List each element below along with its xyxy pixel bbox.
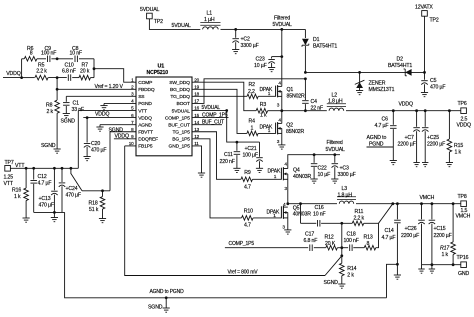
capacitor C23: [268, 57, 275, 68]
svg-text:C14: C14: [385, 228, 394, 234]
wire network right vertical: [93, 59, 95, 78]
svg-text:2.2 k: 2.2 k: [36, 69, 47, 75]
junction C15 tap: [431, 202, 434, 205]
capacitor C11: [234, 142, 241, 168]
svg-text:DPAK: DPAK: [260, 87, 273, 93]
svg-text:R16: R16: [12, 188, 21, 194]
junction node A top: [340, 222, 343, 225]
value MMSZ13T1: [369, 87, 395, 93]
svg-text:100 nF: 100 nF: [41, 50, 56, 56]
label 1.25 (TP7): [4, 175, 14, 181]
resistor R6: [24, 57, 37, 62]
wire R2 to Q1 gate: [258, 95, 275, 97]
label GND (TP16): [458, 271, 469, 277]
label TP2 right: [430, 18, 439, 24]
capacitor C15: [429, 204, 436, 265]
svg-text:AGND to: AGND to: [367, 135, 387, 141]
ground SGND bottom: [163, 298, 170, 312]
svg-text:100 nF: 100 nF: [344, 238, 359, 244]
inductor L1: [200, 23, 220, 30]
net label 12VATX: [415, 5, 433, 11]
capacitor C20: [84, 118, 91, 157]
svg-text:5VDUAL: 5VDUAL: [273, 22, 293, 28]
ground below Q2: [278, 145, 285, 149]
wire C16 row left: [301, 222, 317, 224]
wire SW node to L2: [282, 110, 327, 112]
wire BOOT rail: [305, 71, 424, 73]
value 2200 uF (C15): [434, 233, 452, 239]
pin 3 (Q2): [277, 139, 280, 145]
label L2: [332, 92, 338, 98]
svg-text:TG_1P5: TG_1P5: [172, 130, 190, 136]
wire diagonal to Vref800: [325, 256, 342, 276]
value 1 k (R16): [14, 194, 21, 200]
pin 4 (Q5): [283, 202, 286, 208]
label SGND below R8: [41, 143, 56, 149]
U1 pin number 17: [194, 99, 199, 104]
svg-text:2 k: 2 k: [47, 109, 54, 115]
svg-text:+C26: +C26: [405, 226, 417, 232]
ground below R14: [338, 284, 345, 288]
wire Q2 source to gnd: [281, 133, 283, 145]
wire VDDQ input: [3, 77, 22, 79]
junction node A mid: [340, 254, 343, 257]
value 10 nF (C16): [313, 212, 326, 218]
ground SGND below C1: [63, 114, 70, 118]
U1 reference label: [158, 64, 165, 70]
label +C25: [427, 135, 439, 141]
pin 1 (Q4): [274, 174, 277, 180]
label C14: [385, 228, 394, 234]
svg-text:Filtered: Filtered: [274, 16, 290, 22]
U1 pin name FBDDQ (pin 2): [138, 87, 155, 93]
junction C6 tap: [392, 109, 395, 112]
ground below C7: [413, 163, 419, 167]
svg-text:1.25: 1.25: [4, 175, 14, 181]
svg-text:14: 14: [194, 120, 199, 125]
label C23: [256, 57, 265, 63]
svg-text:4.7: 4.7: [244, 184, 251, 190]
value 22 nF (C4): [311, 105, 324, 111]
wire row A left: [22, 58, 25, 60]
label 1.5 (TP8): [461, 208, 468, 214]
wire diagonal to VMCH: [379, 204, 393, 224]
label Q4: [293, 168, 300, 174]
svg-text:BOOT: BOOT: [177, 101, 190, 107]
label R6: [27, 46, 34, 52]
label ZENER: [369, 81, 386, 87]
svg-text:2.2 k: 2.2 k: [354, 216, 365, 222]
svg-text:R2: R2: [249, 82, 256, 88]
wire VMCH rail: [356, 203, 461, 205]
svg-text:+C25: +C25: [427, 135, 439, 141]
svg-text:4.7: 4.7: [244, 222, 251, 228]
wire C17 to R12: [314, 247, 326, 249]
svg-text:DPAK: DPAK: [260, 124, 273, 130]
label +C13: [39, 196, 51, 202]
U1 pin number 14: [194, 120, 199, 125]
label Q5: [293, 206, 300, 212]
capacitor C25: [422, 111, 429, 163]
junction SGND bottom: [165, 296, 168, 299]
resistor R17: [451, 204, 456, 265]
label R7: [82, 63, 89, 69]
svg-text:R13: R13: [364, 235, 373, 241]
U1 pin number 3: [131, 92, 134, 97]
svg-text:5VDUAL: 5VDUAL: [140, 7, 160, 13]
svg-text:2200 µF: 2200 µF: [427, 142, 445, 148]
junction diag stub: [70, 167, 73, 170]
diode D1 BAT54HT1: [302, 39, 309, 47]
label C16: [315, 205, 324, 211]
svg-text:100 µF: 100 µF: [243, 153, 258, 159]
value 3300 uF (C2): [241, 43, 259, 49]
U1 pin name BG_1P5 (pin 12): [172, 137, 190, 143]
svg-text:+C21: +C21: [245, 146, 257, 152]
testpoint TP2 5VDUAL: [147, 13, 153, 19]
net label 5VDUAL above TP2: [140, 7, 160, 13]
label SGND bottom: [148, 305, 163, 311]
junction C14 tap: [396, 202, 399, 205]
wire BOOT pin17 riser: [192, 79, 305, 104]
svg-text:TG_DDQ: TG_DDQ: [170, 94, 190, 100]
net label Filtered 5VDUAL (1P5): [326, 140, 346, 153]
svg-text:5VDUAL: 5VDUAL: [326, 147, 346, 153]
label Q1: [287, 87, 294, 93]
value 4.7 uF (C6): [375, 123, 389, 129]
wire R9 to Q4 gate: [253, 178, 282, 180]
label R2: [249, 82, 256, 88]
capacitor C14: [394, 204, 401, 265]
svg-text:TP2: TP2: [154, 19, 163, 25]
U1 value label NCP5210: [147, 70, 169, 76]
label C18: [347, 232, 356, 238]
svg-text:10: 10: [129, 141, 134, 146]
capacitor C6: [390, 111, 397, 161]
ground below C20: [84, 157, 91, 161]
value 6.8 nF (C17): [304, 238, 318, 244]
junction R8 tap: [56, 88, 59, 91]
U1 pin number 15: [194, 113, 199, 118]
svg-text:470 µF: 470 µF: [39, 203, 54, 209]
wire FBVTT pin8: [110, 131, 136, 133]
svg-text:Vref = 1.20 V: Vref = 1.20 V: [95, 84, 124, 90]
wire C18 to R13: [353, 247, 364, 249]
label C4: [311, 99, 318, 105]
capacitor C7: [413, 111, 420, 163]
svg-text:VDDQ: VDDQ: [95, 112, 110, 118]
U1 pin name BUF_CUT (pin 14): [168, 122, 190, 128]
net label VDDQ pin6: [95, 112, 110, 118]
junction C15 bottom: [431, 263, 434, 266]
label C6: [382, 117, 389, 123]
value 33 nF (C1): [72, 107, 85, 113]
label R17: [440, 246, 450, 252]
svg-text:DDQREF: DDQREF: [138, 137, 158, 143]
junction C2 tap: [234, 28, 237, 31]
ground below R15: [446, 163, 453, 167]
svg-text:220 nF: 220 nF: [220, 159, 235, 165]
value 51 k (R18): [89, 207, 99, 213]
junction R17 bottom: [452, 263, 455, 266]
wire FB1P5 drop: [125, 146, 325, 276]
pin 1 (Q2): [268, 128, 271, 134]
value 1 (R4): [251, 125, 254, 131]
svg-text:VMCH: VMCH: [420, 195, 435, 201]
junction C4 bottom: [304, 109, 307, 112]
net label BUF_CUT pin14: [202, 119, 224, 125]
svg-text:1 k: 1 k: [14, 194, 21, 200]
svg-text:R10: R10: [244, 208, 253, 214]
wire C23 tap: [272, 56, 282, 58]
label TP8: [458, 194, 467, 200]
label TP7: [5, 160, 14, 166]
svg-text:DPAK: DPAK: [268, 168, 281, 174]
label AGND to (C6): [367, 135, 387, 141]
svg-text:COMP: COMP: [138, 80, 152, 86]
value 1.8 uH (L2): [328, 99, 343, 105]
svg-text:12VATX: 12VATX: [415, 5, 433, 11]
svg-text:5VDUAL: 5VDUAL: [202, 105, 221, 111]
U1 pin name COMP (pin 1): [138, 80, 152, 86]
wire rail C2 to drop: [236, 28, 282, 30]
zener diode MMSZ13T1: [355, 72, 365, 90]
net label COMP_1P5 bottom: [229, 241, 255, 247]
svg-text:470 µF: 470 µF: [66, 193, 81, 199]
wire TG_1P5 pin13: [192, 132, 241, 180]
capacitor C16: [318, 220, 320, 227]
net label VDDQ (TP6): [457, 122, 472, 128]
label +C24: [66, 186, 78, 192]
testpoint TP16: [461, 262, 467, 268]
svg-text:VDDQ: VDDQ: [457, 122, 472, 128]
wire BG_DDQ pin19: [192, 89, 247, 133]
value 4.7 (R10): [244, 222, 251, 228]
ground below C14: [394, 264, 401, 279]
U1 pin number 8: [131, 127, 134, 132]
U1 pin name FB1P5 (pin 10): [138, 144, 153, 150]
junction C14 bottom: [396, 263, 399, 266]
wire VTT drop: [77, 111, 79, 169]
junction diag tap: [391, 202, 394, 205]
svg-text:C6: C6: [382, 117, 389, 123]
value 100 nF (C18): [344, 238, 359, 244]
svg-text:12: 12: [194, 134, 199, 139]
junction C3 tap: [333, 153, 336, 156]
junction C13 tap: [53, 167, 56, 170]
junction pin16 corner: [225, 109, 228, 112]
resistor R11: [352, 221, 364, 226]
ground below PGND pin4: [100, 103, 107, 109]
U1 pin number 11: [194, 141, 199, 146]
label SGND pin7: [109, 127, 124, 133]
junction C24 tap: [61, 167, 64, 170]
wire network left vertical: [21, 59, 23, 78]
label R5: [38, 63, 45, 69]
junction C25 tap: [424, 109, 427, 112]
net label VDDQ rail: [399, 102, 414, 108]
junction C5 tap: [423, 71, 426, 74]
junction node A: [340, 246, 343, 249]
wire VTT rail: [10, 167, 78, 169]
svg-text:4.7 µF: 4.7 µF: [382, 235, 396, 241]
svg-text:VDDQ: VDDQ: [138, 115, 152, 121]
svg-text:1 µH: 1 µH: [204, 17, 215, 23]
wire R11 to node B: [364, 222, 379, 224]
svg-text:20: 20: [194, 77, 199, 82]
svg-text:+C2: +C2: [241, 37, 250, 43]
svg-text:20 K: 20 K: [325, 241, 336, 247]
svg-text:+C13: +C13: [39, 196, 51, 202]
svg-text:R9: R9: [244, 170, 251, 176]
capacitor C13: [51, 168, 58, 212]
wire Q4 drain riser: [288, 155, 340, 169]
junction SW2 node: [286, 202, 289, 205]
svg-text:10 µF: 10 µF: [318, 172, 331, 178]
value 470 uF (C24): [66, 193, 81, 199]
junction R16 tap: [25, 167, 28, 170]
label R3: [260, 102, 267, 108]
svg-text:1: 1: [251, 125, 254, 131]
net label 5VDUAL pin16: [202, 105, 221, 111]
wire AGND-PGND tie: [367, 146, 394, 148]
label DPAK (Q1): [260, 87, 273, 93]
junction R15 tap: [448, 109, 451, 112]
wire VMCH gnd row: [422, 264, 461, 266]
wire SS pin3: [66, 95, 136, 97]
value 2200 uF (C25): [427, 142, 445, 148]
wire VDDQ rail: [346, 110, 461, 112]
wire gnd row to AGND line: [65, 212, 167, 297]
transistor Q4 40N03R: [281, 167, 287, 180]
svg-text:19: 19: [194, 84, 199, 89]
ground below C23: [268, 68, 275, 72]
svg-text:FB1P5: FB1P5: [138, 144, 153, 150]
svg-text:18: 18: [194, 92, 199, 97]
svg-text:3300 µF: 3300 µF: [241, 43, 259, 49]
label C22: [318, 166, 327, 172]
junction row B x57: [56, 76, 59, 79]
svg-text:5VDUAL: 5VDUAL: [172, 108, 191, 114]
ground below R18: [99, 219, 106, 223]
svg-text:SGND: SGND: [61, 119, 76, 125]
ground below C6: [390, 161, 397, 165]
ground below C2: [232, 50, 239, 54]
svg-text:17: 17: [194, 99, 199, 104]
svg-text:Q4: Q4: [293, 168, 300, 174]
label L3: [342, 186, 348, 192]
svg-text:11: 11: [194, 141, 199, 146]
svg-text:SGND: SGND: [324, 280, 339, 286]
wire rail L1 to C2: [221, 28, 236, 30]
svg-text:TP2: TP2: [430, 18, 439, 24]
wire row B C10-R7: [72, 77, 79, 79]
svg-text:C5: C5: [430, 78, 437, 84]
svg-text:10 µF: 10 µF: [254, 63, 267, 69]
svg-text:GND: GND: [458, 271, 469, 277]
wire 12VATX drop: [424, 16, 426, 72]
inductor L3: [337, 197, 356, 204]
resistor R10: [242, 216, 254, 221]
svg-text:Q1: Q1: [287, 87, 294, 93]
svg-text:C22: C22: [318, 166, 327, 172]
label +C21: [245, 146, 257, 152]
ground SGND on AGND pin7: [96, 125, 103, 132]
svg-text:1.8 µH: 1.8 µH: [328, 99, 343, 105]
resistor R5: [35, 75, 48, 80]
svg-text:20 k: 20 k: [80, 69, 90, 75]
value 10 uF (C23): [254, 63, 267, 69]
label TP16: [457, 255, 469, 261]
net label VTT rail: [15, 163, 25, 169]
junction row A x57: [56, 57, 59, 60]
svg-text:85N02R: 85N02R: [287, 94, 306, 100]
svg-text:FBDDQ: FBDDQ: [138, 87, 155, 93]
U1 pin name COMP_1P5 (pin 15): [165, 115, 190, 121]
wire PGND pin4: [104, 102, 136, 104]
net label VDDQ (left input): [6, 71, 21, 77]
U1 pin number 4: [131, 99, 134, 104]
U1 pin name DDQREF (pin 9): [138, 137, 158, 143]
net label Filtered 5VDUAL: [273, 16, 293, 29]
pin 1 (Q1): [268, 91, 271, 97]
U1 pin number 16: [194, 106, 199, 111]
label R11: [355, 209, 364, 215]
U1 pin number 5: [131, 106, 134, 111]
svg-text:Vref = 800 mV: Vref = 800 mV: [228, 269, 259, 275]
svg-text:51 k: 51 k: [89, 207, 99, 213]
resistor R15: [447, 111, 452, 163]
label C11: [224, 152, 233, 158]
label DPAK (Q2): [260, 124, 273, 130]
svg-text:GND_1P5: GND_1P5: [169, 144, 191, 150]
value 8 (R6): [30, 50, 33, 56]
label R18: [89, 201, 98, 207]
svg-text:FBVTT: FBVTT: [138, 130, 153, 136]
junction C22 tap: [313, 153, 316, 156]
value 40N03R (Q4): [293, 174, 312, 180]
inductor L2: [327, 104, 346, 111]
U1 pin name SS (pin 3): [138, 94, 145, 100]
value 2200 uF (C26): [401, 233, 419, 239]
wire AGND to PGND line: [166, 297, 386, 299]
wire SW_DDQ pin20: [192, 82, 256, 111]
svg-text:ZENER: ZENER: [369, 81, 386, 87]
wire COMP_1P5 pin15: [192, 117, 229, 119]
capacitor C24: [59, 168, 66, 212]
value 2 k (R8): [47, 109, 54, 115]
wire VTT sense row: [82, 190, 110, 192]
label +C26: [405, 226, 417, 232]
wire 5VDUAL pin16: [192, 111, 237, 143]
pin 3 (Q1): [277, 103, 280, 109]
label R15: [454, 143, 463, 149]
label C1: [73, 101, 80, 107]
value 2.2 (R2): [248, 89, 255, 95]
value 100 uF (C21): [243, 153, 258, 159]
value 1 k (R3): [260, 113, 267, 119]
label TP2: [154, 19, 163, 25]
label R4: [249, 119, 256, 125]
svg-text:C11: C11: [224, 152, 233, 158]
ground below C15: [429, 265, 435, 274]
wire AGND pin7: [100, 124, 136, 126]
wire row B R5-C10: [48, 77, 67, 79]
label R14: [347, 266, 356, 272]
svg-text:R3: R3: [260, 102, 267, 108]
value 20 K (R12): [325, 241, 336, 247]
capacitor C2: [232, 29, 239, 49]
